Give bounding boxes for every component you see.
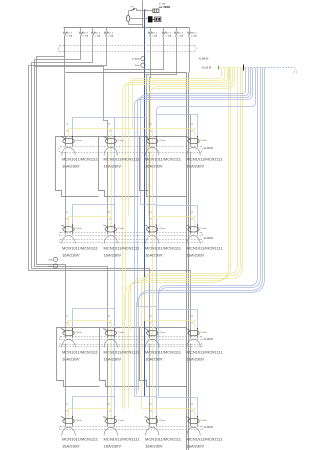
svg-text:-2,5mm: -2,5mm xyxy=(75,140,82,142)
svg-text:MCN1011/MCN1111: MCN1011/MCN1111 xyxy=(187,350,224,355)
socket dome row1 unit4 xyxy=(187,147,200,155)
socket dome row1 unit2 xyxy=(104,147,117,155)
svg-text:-2,5mm: -2,5mm xyxy=(159,140,166,142)
svg-text:MCN1011/MCN1111: MCN1011/MCN1111 xyxy=(62,246,99,251)
svg-text:L1: L1 xyxy=(66,212,68,214)
svg-text:C 16A: C 16A xyxy=(191,35,197,38)
terminal A xyxy=(53,257,57,261)
svg-text:Mxn 2: Mxn 2 xyxy=(83,33,89,35)
svg-text:Mxn 2: Mxn 2 xyxy=(191,33,197,35)
breaker Q5 xyxy=(150,28,152,32)
svg-text:N: N xyxy=(150,131,152,133)
svg-text:N: N xyxy=(109,323,111,325)
svg-text:-2,5mm: -2,5mm xyxy=(200,332,207,334)
svg-text:N: N xyxy=(192,411,194,413)
terminal DmL xyxy=(141,63,145,67)
svg-text:41.AB.06: 41.AB.06 xyxy=(204,338,214,341)
svg-text:ca. 5kWh: ca. 5kWh xyxy=(159,5,171,9)
wire N row1 xyxy=(72,117,147,119)
conduit row4 xyxy=(61,426,202,428)
wire N row4 xyxy=(73,397,115,423)
terminal B xyxy=(53,264,57,268)
svg-text:16A/230V: 16A/230V xyxy=(187,164,205,169)
wire feed row2 unit4 xyxy=(190,152,192,225)
svg-text:MCN1011/MCN1111: MCN1011/MCN1111 xyxy=(62,157,99,162)
connector X0 xyxy=(155,17,161,22)
wire riser 2 xyxy=(35,47,108,329)
svg-text:C 16A: C 16A xyxy=(95,35,101,38)
svg-text:L2: L2 xyxy=(108,124,110,126)
socket dome row3 unit1 xyxy=(62,339,75,347)
svg-text:C 16A: C 16A xyxy=(166,35,172,38)
socket outlet row1 unit1 xyxy=(63,138,74,143)
svg-text:MCN1011/MCN1111: MCN1011/MCN1111 xyxy=(145,246,182,251)
socket outlet row3 unit3 xyxy=(147,330,158,335)
svg-text:N: N xyxy=(192,219,194,221)
breaker Q8 xyxy=(189,28,191,32)
breaker Q3 xyxy=(92,28,94,32)
wire feed row2 unit2 xyxy=(107,152,109,225)
svg-text:C 16A: C 16A xyxy=(152,35,158,38)
svg-text:-2,5mm: -2,5mm xyxy=(200,140,207,142)
kWh meter P1 xyxy=(153,9,159,12)
wire feed row4 unit2 xyxy=(107,344,109,417)
breaker Q4 xyxy=(106,28,108,32)
wire feed row4 unit1 xyxy=(65,344,67,417)
svg-text:-2,5mm: -2,5mm xyxy=(118,420,125,422)
current transformer T1 xyxy=(126,15,129,21)
svg-text:41.A3.W: 41.A3.W xyxy=(202,67,212,70)
wire feed row1 unit4 xyxy=(188,115,191,137)
svg-text:16A/230V: 16A/230V xyxy=(187,444,205,449)
wire N jog row2 xyxy=(141,204,157,206)
breaker Q7 xyxy=(176,28,178,32)
svg-text:L3: L3 xyxy=(150,212,152,214)
svg-text:MCN1011/MCN1111: MCN1011/MCN1111 xyxy=(104,157,141,162)
socket dome row3 unit2 xyxy=(104,339,117,347)
socket outlet row2 unit1 xyxy=(63,227,74,232)
socket dome row4 unit1 xyxy=(62,427,75,435)
wire breaker Q5 feed row1 unit3 xyxy=(150,47,151,137)
svg-text:41.AUA: 41.AUA xyxy=(132,58,140,61)
wire N jog row3 xyxy=(138,306,157,308)
svg-text:L1: L1 xyxy=(191,124,193,126)
svg-text:L3: L3 xyxy=(150,316,152,318)
socket outlet row1 unit4 xyxy=(188,138,199,143)
socket outlet row3 unit1 xyxy=(63,330,74,335)
socket outlet row2 unit2 xyxy=(105,227,116,232)
conduit duct top xyxy=(60,45,195,47)
breaker Q1 xyxy=(64,28,66,32)
neutral riser N (blue) xyxy=(144,10,146,397)
socket dome row1 unit1 xyxy=(62,147,75,155)
conduit row2 xyxy=(61,232,202,234)
svg-text:16A/230V: 16A/230V xyxy=(62,444,80,449)
socket dome row4 unit4 xyxy=(187,427,200,435)
socket outlet row3 unit4 xyxy=(188,330,199,335)
svg-text:41.A: 41.A xyxy=(48,259,53,262)
svg-text:L3: L3 xyxy=(150,124,152,126)
svg-text:C 16A: C 16A xyxy=(83,35,89,38)
svg-text:Mxn 2: Mxn 2 xyxy=(166,33,172,35)
svg-text:16A/230V: 16A/230V xyxy=(62,357,80,362)
svg-text:N: N xyxy=(192,323,194,325)
svg-text:MCN1011/MCN1111: MCN1011/MCN1111 xyxy=(104,246,141,251)
svg-text:MCN1011/MCN1111: MCN1011/MCN1111 xyxy=(145,350,182,355)
svg-text:-2,5mm: -2,5mm xyxy=(118,140,125,142)
svg-text:N: N xyxy=(109,219,111,221)
svg-text:-2,5mm: -2,5mm xyxy=(118,332,125,334)
svg-text:16A/230V: 16A/230V xyxy=(145,253,163,258)
svg-text:MCN1011/MCN1111: MCN1011/MCN1111 xyxy=(62,350,99,355)
wire PE row4 xyxy=(69,409,112,421)
enclosure wall right xyxy=(186,73,188,450)
svg-text:L1: L1 xyxy=(191,404,193,406)
wire riser 1 xyxy=(37,47,66,329)
svg-text:Mxn 2: Mxn 2 xyxy=(67,33,73,35)
svg-text:41.AB.06: 41.AB.06 xyxy=(204,147,214,150)
svg-text:16A/230V: 16A/230V xyxy=(62,164,80,169)
svg-text:16A/230V: 16A/230V xyxy=(187,253,205,258)
svg-text:MCN1011/MCN1111: MCN1011/MCN1111 xyxy=(62,437,99,442)
wire feed row4 unit4 xyxy=(190,344,192,417)
terminal 41.AUA xyxy=(141,57,145,61)
board boxes row3 xyxy=(57,327,187,329)
svg-text:MCN1011/MCN1111: MCN1011/MCN1111 xyxy=(145,437,182,442)
svg-text:16A/230V: 16A/230V xyxy=(187,357,205,362)
socket dome row4 unit2 xyxy=(104,427,117,435)
svg-text:N: N xyxy=(192,131,194,133)
svg-text:16A/230V: 16A/230V xyxy=(104,253,122,258)
svg-text:N: N xyxy=(150,219,152,221)
svg-text:N: N xyxy=(150,411,152,413)
svg-text:-2,5mm: -2,5mm xyxy=(75,228,82,230)
socket dome row4 unit3 xyxy=(146,427,159,435)
wire PE bottom band xyxy=(145,68,238,321)
socket dome row2 unit4 xyxy=(187,236,200,244)
socket outlet row4 unit4 xyxy=(188,418,199,423)
socket dome row2 unit1 xyxy=(62,236,75,244)
socket dome row2 unit3 xyxy=(146,236,159,244)
supply riser wire xyxy=(142,1,144,28)
wire N feed column 3 xyxy=(156,115,158,398)
svg-text:Mxn 2: Mxn 2 xyxy=(178,33,184,35)
socket outlet row4 unit3 xyxy=(147,418,158,423)
svg-text:16A/230V: 16A/230V xyxy=(145,164,163,169)
wire feed row4 unit3 xyxy=(149,344,151,417)
socket dome row3 unit4 xyxy=(187,339,200,347)
svg-text:DmL: DmL xyxy=(135,65,140,67)
wire N feed column 2 xyxy=(114,118,116,397)
wire PE yellow bundle xyxy=(133,68,222,129)
svg-text:-2,5mm: -2,5mm xyxy=(75,420,82,422)
breaker Q6 xyxy=(163,28,165,32)
svg-text:-2,5mm: -2,5mm xyxy=(200,420,207,422)
svg-text:-2,5mm: -2,5mm xyxy=(118,228,125,230)
svg-text:-2,5mm: -2,5mm xyxy=(200,228,207,230)
socket outlet row4 unit1 xyxy=(63,418,74,423)
svg-text:MCN1011/MCN1111: MCN1011/MCN1111 xyxy=(104,437,141,442)
wire breaker Q7 feed row2 unit3 xyxy=(147,47,177,191)
svg-text:-2,5mm: -2,5mm xyxy=(75,332,82,334)
wire feed row2 unit1 xyxy=(65,152,67,225)
svg-text:L1: L1 xyxy=(191,316,193,318)
svg-text:41.AB.06: 41.AB.06 xyxy=(199,58,210,61)
svg-text:41.AB.06: 41.AB.06 xyxy=(204,426,214,429)
svg-text:3,7 kW: 3,7 kW xyxy=(159,4,165,6)
svg-text:MCN1011/MCN1111: MCN1011/MCN1111 xyxy=(187,246,224,251)
wire N row3 xyxy=(73,309,115,335)
wire xyxy=(137,10,143,12)
svg-text:MCN1011/MCN1111: MCN1011/MCN1111 xyxy=(187,157,224,162)
wire PE daisy column 2 xyxy=(111,141,113,217)
svg-text:16A/230V: 16A/230V xyxy=(104,357,122,362)
svg-text:N: N xyxy=(109,411,111,413)
socket dome row3 unit3 xyxy=(146,339,159,347)
svg-text:L1: L1 xyxy=(66,316,68,318)
svg-text:16A/230V: 16A/230V xyxy=(62,253,80,258)
socket dome row2 unit2 xyxy=(104,236,117,244)
wire jog to row1 unit2 xyxy=(35,67,108,137)
enclosure top xyxy=(66,72,187,74)
main distribution bus xyxy=(64,27,190,29)
svg-text:16A/230V: 16A/230V xyxy=(145,357,163,362)
socket outlet row1 unit3 xyxy=(147,138,158,143)
svg-text:L1: L1 xyxy=(66,124,68,126)
svg-text:C 16A: C 16A xyxy=(108,35,114,38)
svg-text:C 16A: C 16A xyxy=(67,35,73,38)
svg-text:16A/230V: 16A/230V xyxy=(104,164,122,169)
wire feed row2 unit3 xyxy=(149,152,151,225)
board boxes row1 xyxy=(56,136,187,138)
svg-text:Mxn 2: Mxn 2 xyxy=(152,33,158,35)
main switch Q0 xyxy=(132,9,136,11)
svg-text:L2: L2 xyxy=(108,404,110,406)
svg-text:c/a: c/a xyxy=(131,6,133,8)
socket outlet row2 unit4 xyxy=(188,227,199,232)
svg-text:16A/230V: 16A/230V xyxy=(104,444,122,449)
svg-text:L1: L1 xyxy=(66,404,68,406)
bracket xyxy=(293,67,295,70)
wire PE row3 xyxy=(69,321,112,333)
main fuse F1 xyxy=(148,16,153,22)
svg-text:Mxn 2: Mxn 2 xyxy=(108,33,114,35)
svg-text:MCN1011/MCN1111: MCN1011/MCN1111 xyxy=(187,437,224,442)
svg-text:MCN1011/MCN1111: MCN1011/MCN1111 xyxy=(145,157,182,162)
svg-text:L2: L2 xyxy=(108,212,110,214)
wire N blue bundle xyxy=(147,68,246,118)
svg-text:16A/230V: 16A/230V xyxy=(145,444,163,449)
socket outlet row1 unit2 xyxy=(105,138,116,143)
socket outlet row2 unit3 xyxy=(147,227,158,232)
wire breaker Q6 feed xyxy=(104,47,164,70)
wire riser 3 xyxy=(32,47,150,329)
wire PE feed column 3 xyxy=(152,129,154,409)
socket outlet row3 unit2 xyxy=(105,330,116,335)
wire PE row2 xyxy=(69,217,112,230)
svg-text:-2,5mm: -2,5mm xyxy=(159,332,166,334)
svg-text:Mxn 2: Mxn 2 xyxy=(95,33,101,35)
wire xyxy=(129,10,132,12)
wire breaker Q8 feed xyxy=(189,47,191,73)
wire N bottom band xyxy=(159,68,258,309)
conduit row3 xyxy=(61,336,202,338)
svg-text:-2,5mm: -2,5mm xyxy=(159,228,166,230)
svg-text:41.AB.06: 41.AB.06 xyxy=(204,237,214,240)
socket dome row1 unit3 xyxy=(146,147,159,155)
svg-text:-2,5mm: -2,5mm xyxy=(159,420,166,422)
wire N row2 xyxy=(73,205,115,231)
wire N jog row4 xyxy=(135,396,157,398)
wire PE row1 xyxy=(69,129,195,141)
svg-text:L2: L2 xyxy=(108,316,110,318)
conduit row1 xyxy=(61,146,202,148)
wire breaker Q1 feed row1 unit1 xyxy=(64,37,66,137)
socket outlet row4 unit2 xyxy=(105,418,116,423)
breaker Q2 xyxy=(80,28,82,32)
svg-text:N: N xyxy=(150,323,152,325)
svg-text:L3: L3 xyxy=(150,404,152,406)
wire riser 4 xyxy=(29,47,191,329)
svg-text:MCN1011/MCN1111: MCN1011/MCN1111 xyxy=(104,350,141,355)
svg-text:C 16A: C 16A xyxy=(178,35,184,38)
svg-text:N: N xyxy=(109,131,111,133)
wire xyxy=(130,18,148,20)
svg-text:L1: L1 xyxy=(191,212,193,214)
